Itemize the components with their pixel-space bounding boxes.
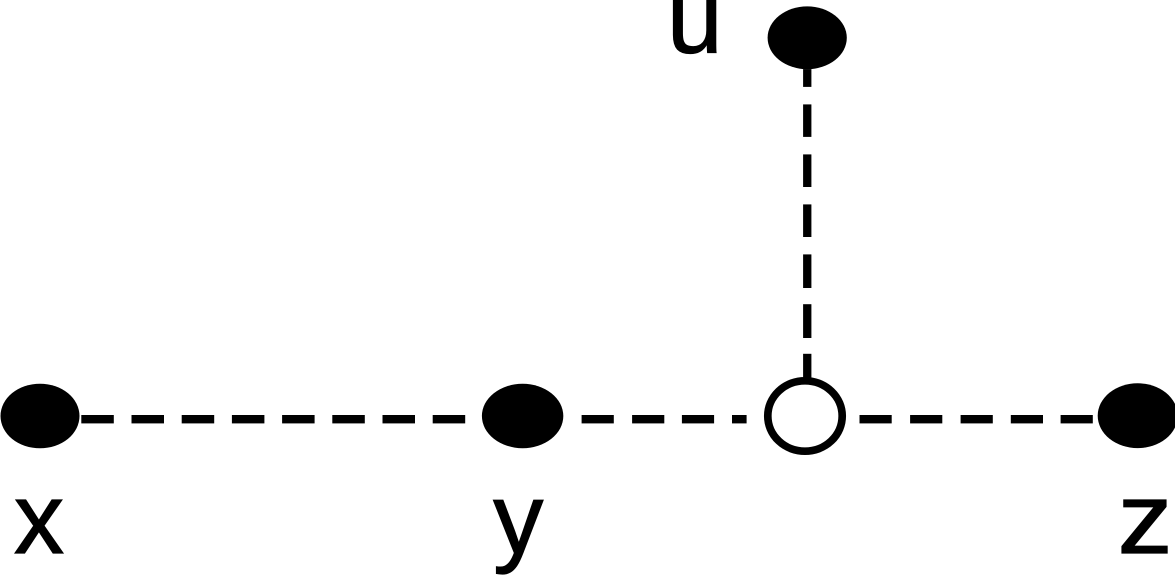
- svg-text:x: x: [14, 463, 64, 575]
- label z: [1118, 463, 1173, 574]
- node x: [1, 384, 80, 449]
- node w (open circle): [768, 381, 842, 451]
- node u: [768, 6, 847, 69]
- svg-text:z: z: [1118, 463, 1173, 574]
- svg-text:u: u: [667, 0, 723, 74]
- node y: [482, 384, 563, 448]
- node z: [1098, 383, 1175, 448]
- edge y-w (dashed wire): [582, 415, 747, 423]
- edge u-w (vertical dashed wire): [803, 69, 811, 378]
- edge w-z (dashed wire): [860, 415, 1093, 423]
- svg-text:y: y: [493, 463, 543, 575]
- edge x-y (dashed wire): [81, 415, 465, 423]
